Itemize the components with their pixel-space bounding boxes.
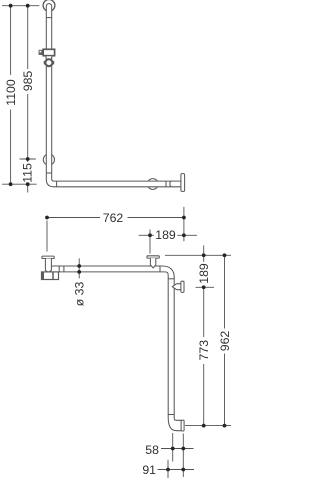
L-shaped rail tube (vertical + bottom horizontal leg), white fill — [46, 4, 181, 187]
joint line on horizontal tube near right end — [165, 181, 167, 187]
middle support: cap plate — [147, 256, 159, 258]
dot 962 top — [223, 253, 227, 257]
extension line leg axis — [172, 433, 174, 462]
tick through 189R bottom — [196, 286, 215, 288]
extension line from middle support up — [149, 230, 151, 254]
ring at top of vertical rail (wall eyelet) — [43, 0, 55, 11]
dot 58 left — [171, 447, 175, 451]
dimension line 773 — [203, 287, 205, 337]
dot 115 bottom — [26, 182, 30, 186]
dot 1100 top — [9, 4, 13, 8]
top-right corner bend outer edge — [162, 266, 174, 278]
rail outer edge stroke — [46, 4, 181, 187]
horizontal tube of figure 2: top edge — [51, 265, 162, 267]
shower holder slider: neck — [46, 56, 52, 60]
vertical leg: right edge — [173, 277, 175, 418]
svg-text:1100: 1100 — [4, 79, 18, 106]
right wall flange plate — [181, 174, 185, 192]
bottom bend inner edge — [174, 418, 181, 420]
dot 773 bottom — [202, 424, 206, 428]
left wall flange: stem — [45, 259, 51, 273]
tick through 985 lower point — [20, 158, 36, 160]
rail inner edge stroke — [52, 6, 181, 181]
joint line before top-right bend — [159, 266, 161, 272]
dimension line 58 — [161, 448, 194, 450]
right top tick line — [165, 254, 231, 256]
svg-text:ø 33: ø 33 — [73, 282, 87, 307]
support glide circle on vertical rail — [43, 154, 54, 165]
shower holder slider: side tabs — [44, 61, 46, 65]
dimension line 115 — [27, 159, 29, 162]
left corner box: flange plate (thick dark left bar) — [42, 272, 45, 280]
bottom tick line — [185, 425, 231, 427]
joint line on leg above bottom bend — [168, 414, 174, 416]
svg-text:189: 189 — [197, 263, 211, 284]
dot 189 top left — [148, 233, 152, 237]
shower holder slider: holder ring — [45, 59, 52, 66]
dot 762 right — [182, 216, 186, 220]
extension line at wall plane (right) — [183, 207, 185, 242]
left wall flange: cap plate — [42, 256, 54, 258]
dot 58 right — [181, 447, 185, 451]
svg-text:115: 115 — [21, 163, 35, 183]
bottom extension line at rail axis — [2, 183, 37, 185]
upper side support: cone + stem — [172, 284, 176, 290]
dot 91 right — [181, 468, 185, 472]
vertical leg: left edge — [167, 275, 169, 417]
left corner box: divider — [52, 272, 54, 280]
middle support: stem with V tip — [150, 258, 155, 268]
extension line from left flange up — [46, 221, 48, 252]
top-right corner bend inner edge — [165, 272, 168, 275]
svg-text:985: 985 — [21, 71, 35, 92]
dot 762 left — [45, 216, 49, 220]
sleeve joint lines on tube — [58, 266, 60, 272]
dot 985 bottom — [26, 157, 30, 161]
shower holder slider: left knob — [39, 50, 44, 55]
dimension line 1100 — [10, 6, 12, 75]
shower holder slider: main block — [43, 49, 54, 55]
joint line on horizontal tube near bend — [56, 181, 58, 187]
dot dia33 top — [77, 264, 81, 268]
dot dia33 bottom — [77, 270, 81, 274]
dot 1100 bottom — [9, 182, 13, 186]
extension line 91 left — [167, 460, 169, 478]
dimension line 762 — [47, 217, 100, 219]
extension line wall plane bottom — [182, 434, 184, 478]
rounded sleeve start near right end — [170, 181, 171, 187]
dot 985 top — [26, 4, 30, 8]
left corner box (bend toward wall) — [42, 272, 59, 280]
dimension line 189 top — [139, 234, 154, 236]
dot 189R top — [202, 253, 206, 257]
svg-text:91: 91 — [142, 463, 156, 477]
dot 962 bottom — [223, 424, 227, 428]
upper side support: plate — [181, 281, 184, 292]
svg-text:189: 189 — [155, 228, 176, 242]
dot 189R bottom — [202, 285, 206, 289]
bottom bend outer edge — [168, 418, 181, 431]
horizontal tube of figure 2: bottom edge — [59, 271, 166, 273]
dimension line 91 — [158, 469, 195, 471]
top extension tick line — [2, 5, 39, 7]
dot 91 left — [166, 468, 170, 472]
dimension line dia 33 — [78, 258, 80, 278]
svg-text:762: 762 — [103, 211, 124, 225]
svg-text:773: 773 — [197, 340, 211, 361]
dot 189 top right — [182, 233, 186, 237]
dimension line 189 right — [203, 246, 205, 262]
svg-text:58: 58 — [145, 443, 159, 457]
svg-text:962: 962 — [218, 331, 232, 352]
bottom wall flange plate — [181, 420, 184, 431]
joint line above bottom bend — [46, 172, 51, 174]
support glide circle on horizontal rail — [147, 179, 158, 190]
joint line on leg below corner — [168, 278, 174, 280]
dimension line 962 — [224, 255, 226, 328]
joint line near top of tube — [46, 17, 51, 19]
dimension line 985 — [27, 6, 29, 69]
